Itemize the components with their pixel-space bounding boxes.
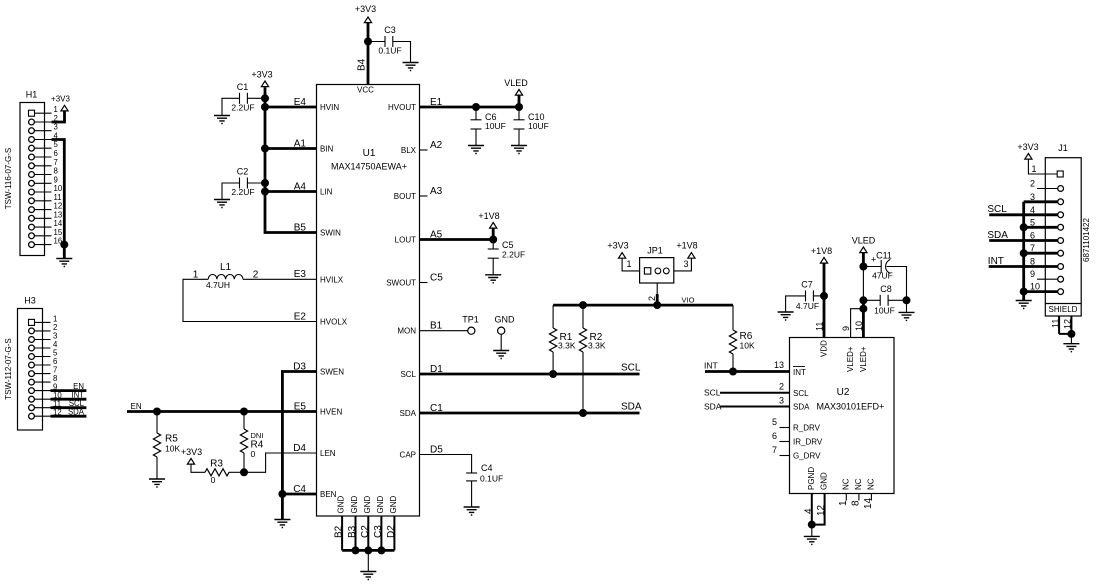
svg-text:3: 3: [779, 396, 784, 406]
svg-text:SCL: SCL: [400, 370, 416, 379]
svg-text:9: 9: [841, 326, 851, 331]
svg-text:SCL: SCL: [793, 389, 809, 398]
svg-text:7: 7: [1030, 243, 1035, 253]
U1 pin D4 (LEN) label: [293, 443, 336, 458]
svg-text:3: 3: [683, 259, 688, 269]
wire VLED to VLED+ pin 10: [862, 253, 865, 267]
connector H3: [4, 296, 43, 431]
svg-text:2.2UF: 2.2UF: [231, 187, 254, 197]
svg-text:INT: INT: [704, 361, 718, 371]
svg-text:B5: B5: [294, 222, 307, 233]
svg-text:3: 3: [54, 123, 58, 132]
H1 pin 10: [29, 184, 63, 195]
svg-text:L1: L1: [220, 262, 232, 273]
ground (BEN bus): [274, 520, 290, 528]
power +3V3 arrow (R3): [187, 459, 194, 465]
svg-text:LEN: LEN: [320, 449, 336, 458]
svg-text:GND: GND: [820, 472, 829, 490]
power +3V3 arrow (H1): [61, 105, 68, 111]
svg-text:8: 8: [1030, 257, 1035, 267]
J1 pin 1 (square): [1032, 164, 1064, 177]
ground (R5): [149, 479, 165, 487]
svg-text:C7: C7: [801, 280, 813, 290]
net SDA wire (U1): [420, 412, 640, 415]
svg-text:GND: GND: [376, 496, 385, 514]
svg-text:U2: U2: [837, 387, 850, 398]
svg-text:10: 10: [854, 321, 864, 331]
svg-text:VIO: VIO: [682, 296, 695, 305]
H1 pin 7: [29, 158, 58, 169]
power +1V8 arrow (JP1): [688, 253, 695, 259]
H3 pin 3: [29, 332, 58, 343]
U1 pin A1 (BIN) label: [294, 138, 334, 153]
H1 pin 8: [29, 167, 58, 178]
svg-text:0.1UF: 0.1UF: [378, 46, 401, 56]
ground (J1 bus): [1016, 301, 1032, 309]
svg-text:SCL: SCL: [621, 363, 641, 374]
svg-text:1: 1: [54, 105, 58, 114]
ground (C2): [214, 200, 230, 208]
svg-text:10: 10: [54, 184, 63, 193]
junction VLED/C8: [859, 296, 867, 304]
svg-text:IR_DRV: IR_DRV: [793, 438, 823, 447]
U1 pin C4 (BEN) label: [293, 484, 336, 499]
svg-text:2.2UF: 2.2UF: [231, 103, 254, 113]
H3 pin 8: [29, 374, 58, 385]
svg-text:BIN: BIN: [320, 145, 334, 154]
svg-text:EN: EN: [131, 402, 142, 411]
wire MON to TP1: [420, 330, 468, 332]
svg-text:13: 13: [54, 210, 63, 219]
svg-text:+1V8: +1V8: [478, 211, 499, 221]
U1 pin C5 (SWOUT) label: [386, 272, 443, 287]
svg-text:7: 7: [54, 158, 58, 167]
svg-text:E5: E5: [294, 401, 307, 412]
wire U1 SWOUT stub: [420, 282, 428, 284]
svg-text:2: 2: [1030, 179, 1035, 189]
capacitor C10: [514, 107, 549, 146]
junction HVOUT/C10: [515, 103, 523, 111]
svg-text:11: 11: [54, 193, 62, 202]
svg-text:6: 6: [1030, 231, 1035, 241]
svg-text:PGND: PGND: [807, 467, 816, 490]
testpoint TP1: [462, 315, 479, 335]
wire VCC pin B4: [367, 23, 370, 85]
svg-text:E2: E2: [294, 311, 307, 322]
svg-text:INT: INT: [793, 368, 806, 377]
svg-text:3.3K: 3.3K: [588, 341, 606, 351]
svg-text:CAP: CAP: [400, 451, 416, 460]
svg-text:NC: NC: [841, 478, 850, 490]
svg-text:B1: B1: [430, 321, 443, 332]
U2 pin GND: [812, 472, 829, 525]
junction GND bus: [364, 546, 372, 554]
junction VDD/C7: [820, 292, 828, 300]
U1 pin A4 (LIN) label: [294, 181, 333, 196]
U1 pin E3 (HVILX) label: [294, 269, 344, 284]
svg-text:U1: U1: [363, 148, 376, 159]
U1 pin D3 (SWEN) label: [293, 361, 344, 376]
junction LOUT/C5: [489, 236, 497, 244]
junction SCL/R1: [549, 370, 557, 378]
svg-text:C2: C2: [237, 167, 249, 177]
svg-text:JP1: JP1: [647, 246, 663, 256]
wire J1 shield to ground: [1070, 334, 1072, 344]
junction VCC/C3: [364, 38, 372, 46]
wire J1 ground bus: [1022, 202, 1025, 301]
net SCL wire (U1): [420, 373, 640, 376]
svg-text:2.2UF: 2.2UF: [502, 250, 525, 260]
svg-text:NC: NC: [866, 478, 875, 490]
svg-text:TP1: TP1: [462, 315, 479, 325]
ground (C8/C11): [899, 312, 915, 320]
wire J1 pin1 to +3V3: [1028, 159, 1057, 174]
net HVOUT wire: [420, 106, 520, 109]
wire +1V8 to VDD pin 11: [823, 263, 826, 337]
junction H1 pin16: [60, 241, 68, 249]
svg-text:2: 2: [253, 270, 259, 281]
svg-text:MON: MON: [397, 327, 416, 336]
svg-text:1: 1: [627, 259, 632, 269]
svg-text:3: 3: [1030, 192, 1035, 202]
svg-text:C8: C8: [880, 284, 892, 294]
net INT wire (U2): [705, 370, 790, 373]
wire U1 BLX stub: [420, 149, 428, 151]
svg-text:9: 9: [54, 175, 58, 184]
resistor R6: [729, 305, 755, 371]
svg-text:C5: C5: [430, 272, 443, 283]
svg-text:10: 10: [1030, 282, 1040, 292]
net SCL stub (U2): [704, 382, 790, 398]
wire bus to BIN: [265, 147, 317, 150]
H1 pin 2: [29, 114, 58, 125]
power VLED arrow (U2): [860, 247, 867, 253]
net LOUT wire: [420, 238, 494, 241]
svg-text:SDA: SDA: [400, 409, 417, 418]
U1 pin C2 (GND): [360, 496, 372, 551]
ground (C1): [214, 116, 230, 124]
ground (C7): [778, 312, 794, 320]
svg-text:14: 14: [863, 497, 874, 509]
svg-text:D4: D4: [293, 443, 306, 454]
svg-text:VLED: VLED: [852, 236, 876, 246]
svg-text:+3V3: +3V3: [1017, 142, 1038, 152]
svg-text:C11: C11: [876, 251, 892, 261]
svg-text:VDD: VDD: [820, 340, 829, 357]
svg-text:8: 8: [850, 500, 861, 506]
H3 pin 5: [29, 349, 58, 360]
power +3V3 arrow (VCC): [364, 17, 371, 23]
wire +3V3 input bus: [265, 87, 317, 232]
svg-text:MAX30101EFD+: MAX30101EFD+: [817, 402, 885, 412]
junction VLED/pin9 branch: [859, 305, 867, 313]
power +3V3 arrow (J1): [1025, 154, 1032, 160]
svg-text:SDA: SDA: [987, 230, 1008, 241]
svg-text:GND: GND: [350, 496, 359, 514]
U2 pin G_DRV: [772, 445, 821, 461]
svg-text:4.7UF: 4.7UF: [796, 301, 819, 311]
svg-text:+3V3: +3V3: [251, 70, 272, 80]
H3 pin 1 (square): [29, 314, 58, 325]
svg-text:5: 5: [772, 417, 777, 427]
H1 pin 16: [29, 237, 63, 248]
junction R4/R3: [240, 468, 248, 476]
svg-text:1: 1: [1032, 164, 1037, 174]
svg-text:10K: 10K: [165, 444, 180, 454]
svg-text:G_DRV: G_DRV: [793, 452, 821, 461]
resistor R1: [550, 305, 576, 374]
J1 pin 3: [1024, 192, 1064, 205]
svg-text:HVILX: HVILX: [320, 275, 344, 284]
U1 pin D2 (GND): [386, 496, 398, 551]
svg-text:9: 9: [1030, 269, 1035, 279]
net SCL wire (J1): [987, 204, 1058, 215]
svg-text:0: 0: [211, 475, 216, 485]
svg-text:5: 5: [1030, 217, 1035, 227]
jumper JP1: [640, 246, 674, 284]
svg-text:HVEN: HVEN: [320, 408, 342, 417]
svg-text:2: 2: [647, 296, 657, 301]
wire JP1 pin1: [622, 258, 640, 271]
wire BEN bus to ground: [281, 494, 284, 520]
svg-text:4: 4: [1030, 205, 1035, 215]
svg-text:SDA: SDA: [621, 402, 642, 413]
svg-text:10UF: 10UF: [874, 306, 895, 316]
wire H1 pin2 to +3V3: [52, 111, 65, 122]
IC U2 MAX30101EFD+: [790, 338, 895, 494]
svg-text:C1: C1: [237, 82, 249, 92]
svg-text:HVIN: HVIN: [320, 103, 339, 112]
H1 pin 14: [29, 219, 63, 230]
U1 pin A3 (BOUT) label: [394, 186, 443, 201]
capacitor C1: [222, 82, 265, 116]
U1 pin B3 (GND): [347, 496, 359, 551]
svg-text:A3: A3: [430, 186, 443, 197]
svg-text:VLED+: VLED+: [846, 346, 855, 372]
U1 pin C3 (GND): [373, 496, 385, 551]
wire CAP pin to C4: [420, 455, 472, 474]
wire JP1 pin2 to VIO: [656, 283, 658, 294]
J1 pin 12: [1059, 316, 1073, 334]
J1 pin 6: [1030, 231, 1064, 244]
junction BEN bus: [278, 490, 286, 498]
junction GND bus: [377, 546, 385, 554]
U2 pin INT name (overline): [793, 367, 806, 378]
svg-text:47UF: 47UF: [872, 271, 893, 281]
H1 pin 5: [29, 140, 59, 151]
wire U1 GND bus: [342, 549, 394, 552]
svg-text:12: 12: [54, 202, 63, 211]
junction bus/C1: [261, 94, 269, 102]
H3 pin 7: [29, 366, 58, 377]
ground (C3): [403, 63, 419, 71]
capacitor C4: [466, 463, 503, 507]
wire +1V8 arrow to LOUT: [492, 228, 495, 239]
svg-text:7: 7: [772, 445, 777, 455]
svg-text:SDA: SDA: [793, 403, 810, 412]
wire GND bus to ground: [367, 550, 369, 571]
H3 pin 11 / net SCL: [29, 399, 87, 411]
resistor R3: [191, 459, 244, 486]
junction J1 pin10/ground bus: [1020, 288, 1028, 296]
J1 pin 11: [1050, 316, 1060, 334]
svg-text:VLED+: VLED+: [859, 346, 868, 372]
U1 pin D1 (SCL) label: [400, 364, 443, 379]
net SDA wire (J1): [987, 230, 1058, 241]
capacitor C5: [488, 240, 525, 275]
junction R6/INT: [729, 368, 737, 376]
svg-text:HVOUT: HVOUT: [388, 103, 416, 112]
J1 pin 4: [1030, 205, 1064, 218]
svg-text:SWOUT: SWOUT: [386, 279, 416, 288]
svg-text:3.3K: 3.3K: [558, 341, 576, 351]
svg-text:LOUT: LOUT: [395, 236, 416, 245]
U1 pin B5 (SWIN) label: [294, 222, 341, 237]
J1 pin 10: [1024, 282, 1064, 295]
wire VLED+ pin 9 branch: [851, 309, 864, 338]
J1 pin 2: [1030, 179, 1064, 192]
resistor R2: [579, 305, 605, 413]
U1 pin A2 (BLX) label: [401, 140, 443, 155]
svg-text:14: 14: [54, 219, 63, 228]
H1 pin 3: [29, 123, 58, 134]
svg-text:INT: INT: [988, 256, 1004, 267]
svg-text:8: 8: [54, 167, 58, 176]
svg-text:0: 0: [251, 449, 256, 459]
svg-text:BLX: BLX: [401, 146, 417, 155]
svg-text:2: 2: [779, 382, 784, 392]
svg-text:H3: H3: [24, 296, 36, 306]
ground (J1 shield): [1063, 344, 1079, 352]
svg-text:VCC: VCC: [357, 86, 374, 95]
U1 pin E4 (HVIN) label: [294, 97, 340, 112]
resistor R4: [240, 412, 263, 473]
U1 pin A5 (LOUT) label: [395, 229, 443, 244]
junction bus/C2: [261, 179, 269, 187]
svg-text:NC: NC: [854, 478, 863, 490]
svg-text:LIN: LIN: [320, 188, 333, 197]
J1 pin 7: [1024, 243, 1064, 256]
svg-text:5: 5: [54, 140, 59, 149]
svg-text:11: 11: [815, 322, 825, 331]
ground (U2 PGND): [804, 536, 820, 544]
junction bus/BIN: [261, 145, 269, 153]
svg-text:SHIELD: SHIELD: [1049, 305, 1078, 314]
H3 pin 10 / net INT: [29, 391, 87, 403]
H1 pin 12: [29, 202, 63, 213]
svg-text:6: 6: [54, 149, 58, 158]
power +3V3 arrow (U1 input bus): [261, 81, 268, 87]
svg-text:TSW-112-07-G-S: TSW-112-07-G-S: [4, 338, 13, 400]
svg-text:A1: A1: [294, 138, 307, 149]
H3 pin 9 / net EN: [29, 382, 87, 394]
svg-text:+3V3: +3V3: [355, 4, 376, 14]
svg-text:TSW-116-07-G-S: TSW-116-07-G-S: [4, 148, 13, 210]
power VLED arrow: [515, 90, 522, 96]
junction bus/HVIN: [261, 103, 269, 111]
svg-text:VLED: VLED: [504, 78, 528, 88]
ground (GND testpoint): [493, 351, 509, 359]
H1 pin 9: [29, 175, 58, 186]
power +1V8 arrow (U2 VDD): [820, 258, 827, 264]
J1 pin 9: [1030, 269, 1064, 282]
H3 pin 12 / net SDA: [29, 408, 87, 420]
power +3V3 arrow (JP1): [619, 253, 626, 259]
U1 pin C1 (SDA) label: [400, 403, 444, 418]
junction bus/LIN: [261, 188, 269, 196]
U2 pin NC (14): [863, 478, 876, 509]
capacitor C2: [222, 167, 265, 200]
ground (C6): [468, 146, 484, 154]
junction J1 pin5/ground bus: [1020, 223, 1028, 231]
capacitor C11 (polarized): [863, 251, 906, 301]
H3 pin 2: [29, 323, 58, 334]
H3 pin 4: [29, 340, 58, 351]
junction J1 pin7/ground bus: [1020, 249, 1028, 257]
net SDA stub (U2): [704, 396, 790, 412]
U2 pin NC (8): [850, 478, 863, 506]
svg-text:10UF: 10UF: [528, 121, 549, 131]
svg-text:E4: E4: [294, 97, 307, 108]
H1 pin 11: [29, 193, 62, 204]
capacitor C3: [368, 25, 411, 63]
svg-text:A2: A2: [430, 140, 443, 151]
svg-text:+3V3: +3V3: [51, 95, 70, 104]
svg-text:C5: C5: [502, 240, 514, 250]
U1 pin B1 (MON) label: [397, 321, 442, 336]
junction PGND/GND: [808, 521, 816, 529]
capacitor C6: [471, 107, 506, 146]
net VIO wire: [553, 304, 733, 307]
svg-text:GND: GND: [389, 496, 398, 514]
J1 pin 8: [1030, 257, 1064, 270]
svg-text:BOUT: BOUT: [394, 192, 416, 201]
U1 pin E1 (HVOUT) label: [388, 97, 443, 112]
wire bus to LIN: [265, 190, 317, 193]
ground (C5): [485, 275, 501, 283]
wire VLED arrow to HVOUT: [518, 95, 521, 107]
svg-text:SCL: SCL: [704, 388, 721, 398]
svg-text:4.7UH: 4.7UH: [206, 280, 230, 290]
wire H1 pin4 to pin16 ground bus: [52, 140, 65, 259]
svg-text:0.1UF: 0.1UF: [480, 474, 503, 484]
svg-text:15: 15: [54, 228, 63, 237]
svg-text:SWEN: SWEN: [320, 368, 344, 377]
svg-text:SWIN: SWIN: [320, 229, 341, 238]
wire U1 BOUT stub: [420, 195, 428, 197]
ground (H1): [56, 259, 72, 267]
svg-text:R3: R3: [210, 459, 223, 470]
svg-text:+3V3: +3V3: [607, 241, 628, 251]
power +1V8 arrow (LOUT): [490, 223, 497, 229]
svg-text:J1: J1: [1058, 143, 1068, 153]
junction EN/R4: [240, 408, 248, 416]
U1 pin D5 (CAP) label: [400, 444, 444, 459]
svg-text:1: 1: [838, 500, 849, 506]
svg-text:13: 13: [774, 360, 784, 370]
svg-text:GND: GND: [495, 315, 516, 325]
H1 pin 1 (square): [29, 105, 58, 116]
junction VIO/JP1: [653, 301, 661, 309]
connector H1: [4, 90, 45, 256]
wire JP1 pin3: [674, 258, 692, 271]
svg-text:SDA: SDA: [68, 408, 85, 417]
junction SDA/R2: [579, 409, 587, 417]
junction EN/R5: [153, 408, 161, 416]
resistor R5: [153, 412, 180, 480]
junction VIO/R2: [579, 301, 587, 309]
svg-text:BEN: BEN: [320, 490, 337, 499]
